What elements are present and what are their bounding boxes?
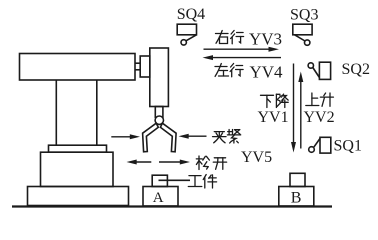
gripper pivot circle [155, 116, 163, 124]
limit switch SQ1 body [320, 137, 331, 153]
arrow clamp right side (points left at gripper) [179, 134, 207, 139]
svg-text:YV3: YV3 [249, 30, 282, 49]
svg-text:SQ4: SQ4 [177, 6, 205, 23]
limit switch SQ1 lever [314, 139, 320, 148]
limit switch SQ2 body [319, 62, 330, 79]
chinese text 工件 (workpiece) [188, 175, 216, 189]
svg-text:B: B [291, 190, 302, 207]
arrow down (YV1) [291, 64, 296, 153]
svg-text:SQ2: SQ2 [342, 61, 370, 78]
connector link upper line [135, 62, 140, 64]
limit switch SQ4 body [177, 24, 196, 35]
gripper right finger [160, 123, 176, 152]
robot base middle block [41, 152, 114, 186]
svg-text:YV5: YV5 [241, 149, 272, 166]
chinese text 松开 (release) [196, 156, 226, 170]
workpiece rectangle on A [152, 175, 167, 186]
svg-text:SQ1: SQ1 [334, 138, 362, 155]
robot column right line [96, 80, 98, 145]
svg-text:YV4: YV4 [250, 62, 284, 81]
svg-text:SQ3: SQ3 [290, 7, 318, 24]
arrow clamp left side (points right at gripper) [111, 134, 140, 139]
vertical slider body [150, 48, 169, 107]
limit switch SQ2 lever [313, 68, 320, 78]
chinese text 左行 (leftward) [215, 64, 243, 77]
connector small block [140, 56, 150, 77]
chinese text 夹紧 (clamp) [213, 130, 241, 144]
chinese text 下降 (descend) [261, 94, 289, 107]
limit switch SQ2 roller [308, 63, 313, 68]
svg-text:A: A [153, 190, 164, 206]
limit switch SQ3 roller [305, 40, 310, 45]
svg-text:YV2: YV2 [304, 109, 335, 126]
arrow up (YV2) [298, 72, 303, 149]
chinese text 上升 (ascend) [306, 93, 334, 106]
platform A box [143, 187, 178, 207]
horizontal arm rectangle [20, 54, 136, 81]
connector link lower line [135, 69, 140, 71]
robot base bottom block [28, 187, 129, 206]
robot column left line [55, 80, 57, 145]
limit switch SQ3 lever [295, 35, 305, 41]
arrow release right (points right) [159, 160, 190, 165]
platform B box [279, 187, 314, 207]
svg-text:YV1: YV1 [258, 109, 289, 126]
robot column flange cap [49, 145, 107, 152]
chinese text 右行 (rightward) [216, 31, 244, 44]
gripper left finger [143, 123, 159, 152]
ground line [12, 205, 332, 207]
limit switch SQ4 roller [181, 40, 186, 45]
limit switch SQ4 lever [186, 35, 197, 41]
arrow left travel (YV4) [203, 55, 282, 60]
limit switch SQ1 roller [309, 147, 315, 153]
gripper wrist [155, 107, 163, 118]
limit switch SQ3 body [293, 24, 312, 35]
arrow release left (points left) [127, 160, 152, 165]
empty square on B [290, 173, 305, 186]
arrow right travel (you hang YV3) [204, 47, 280, 52]
workpiece leader line [159, 179, 191, 181]
